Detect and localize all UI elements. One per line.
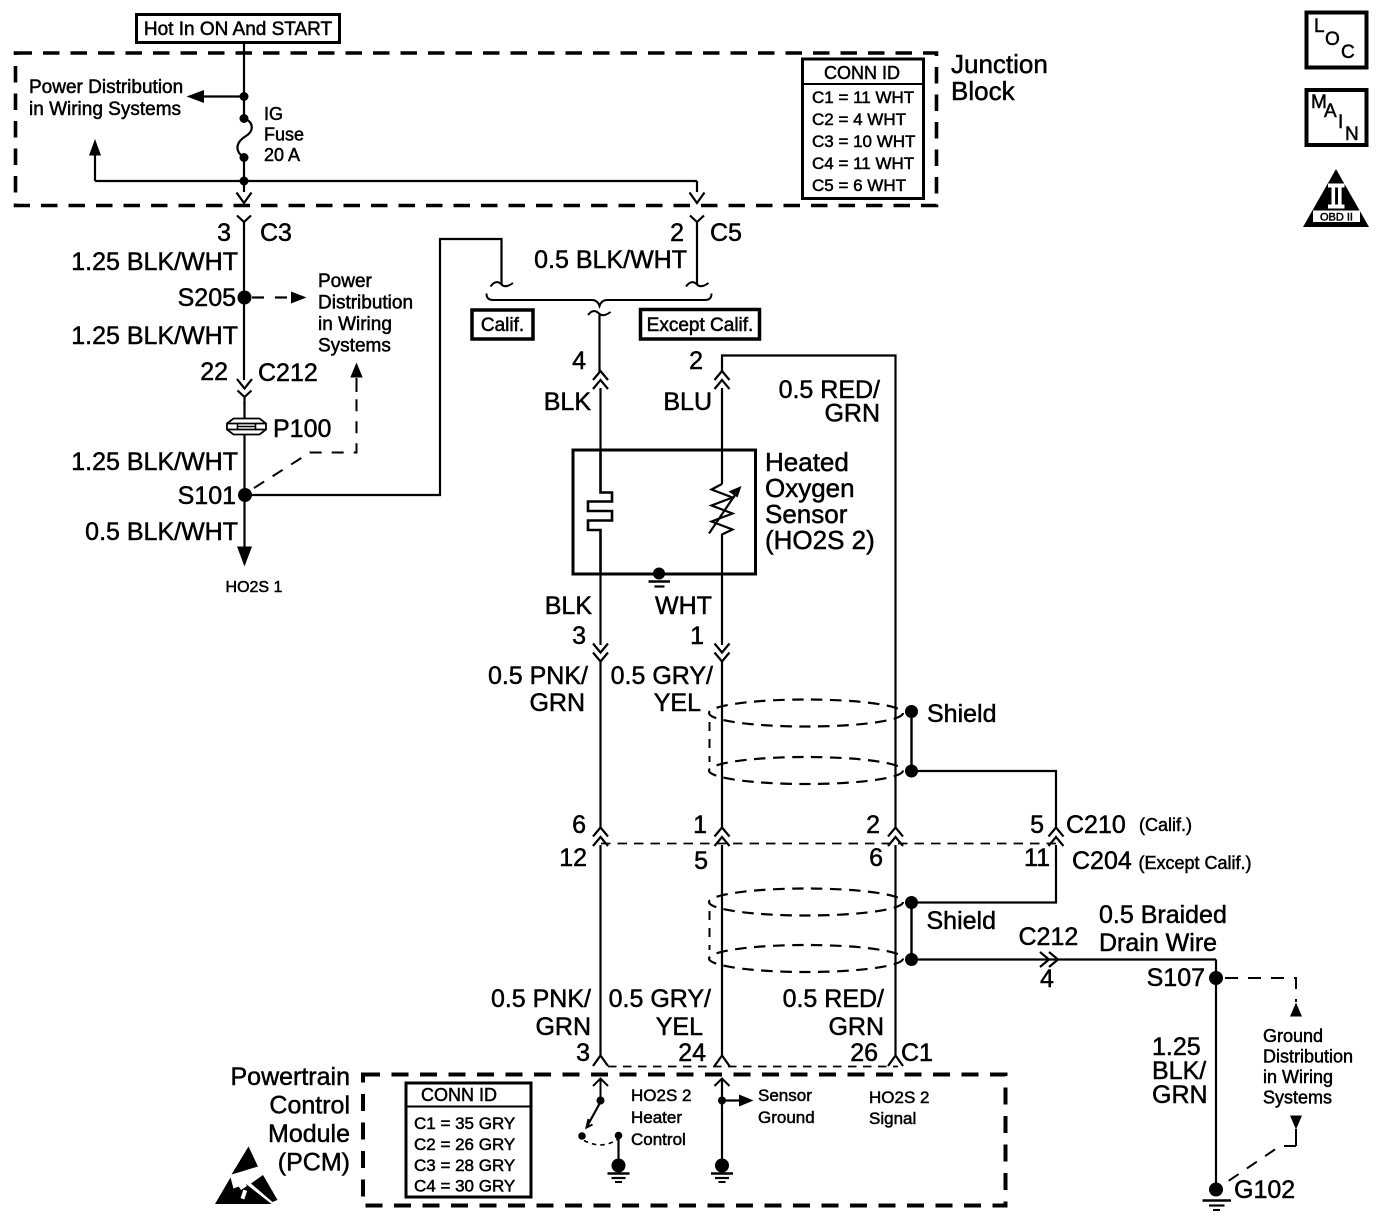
wire S101 to HO2S1 arrow xyxy=(243,495,245,548)
wire P100 to S101 xyxy=(243,435,245,496)
label Heated Oxygen Sensor (HO2S 2) xyxy=(765,447,875,555)
label HO2S 2 Heater Control xyxy=(631,1086,691,1149)
wire to C5 xyxy=(696,181,698,192)
svg-text:S205: S205 xyxy=(178,284,236,312)
connector arrow C5 (male) xyxy=(690,193,705,204)
wire from Hot In box down to fuse xyxy=(243,43,245,119)
wire chevron to sensor (WHT inside) xyxy=(721,388,723,484)
arrow to Sensor Ground label xyxy=(722,1095,754,1107)
wire break squiggle (left of brace) xyxy=(491,282,514,286)
wire sensor to chevrons (WHT) xyxy=(721,574,723,645)
inline chevrons BLU wire xyxy=(715,371,730,389)
svg-text:GRN: GRN xyxy=(1152,1081,1208,1109)
svg-text:OBD II: OBD II xyxy=(1320,212,1353,224)
label box Calif. xyxy=(472,310,533,339)
ground (heater control) xyxy=(608,1159,630,1183)
svg-text:Systems: Systems xyxy=(1263,1088,1332,1108)
svg-text:C210: C210 xyxy=(1066,811,1126,839)
svg-text:Control: Control xyxy=(631,1130,686,1149)
svg-text:0.5 BLK/WHT: 0.5 BLK/WHT xyxy=(85,518,238,546)
label 0.5 Braided Drain Wire xyxy=(1099,901,1227,957)
svg-text:Except Calif.: Except Calif. xyxy=(647,315,754,336)
bus wire inside junction block xyxy=(95,180,697,182)
svg-text:S107: S107 xyxy=(1147,964,1205,992)
label IG Fuse 20 A xyxy=(264,104,304,165)
svg-text:C212: C212 xyxy=(1019,923,1079,951)
svg-text:0.5 GRY/: 0.5 GRY/ xyxy=(609,985,711,1013)
svg-text:Block: Block xyxy=(951,76,1016,106)
label C212 / 4 xyxy=(1019,923,1079,993)
inline chevrons BLK wire xyxy=(593,371,608,389)
svg-text:O: O xyxy=(1325,29,1340,50)
pin 3 internal arrow xyxy=(593,1079,608,1105)
svg-text:4: 4 xyxy=(1040,965,1054,993)
wire RED/GRN between connector and lower shield xyxy=(894,845,896,1049)
connector line C210/C204 (dashed) xyxy=(601,843,1056,845)
label Junction Block xyxy=(951,49,1048,106)
svg-text:2: 2 xyxy=(670,219,684,247)
svg-text:in Wiring Systems: in Wiring Systems xyxy=(29,99,181,120)
svg-text:P100: P100 xyxy=(273,415,331,443)
LOC symbol xyxy=(1307,13,1367,68)
wire break squiggle (below brace) xyxy=(588,311,611,315)
wire GRY/YEL to PCM xyxy=(721,845,723,1049)
svg-text:C2 = 4 WHT: C2 = 4 WHT xyxy=(812,110,906,129)
junction block dashed box xyxy=(16,53,937,206)
svg-text:(PCM): (PCM) xyxy=(278,1149,350,1177)
inline chevrons PNK/GRN wire xyxy=(593,644,608,662)
svg-text:C1: C1 xyxy=(901,1039,933,1067)
pin labels at C210/C204 xyxy=(559,811,1050,875)
connector arrow C3 (male) xyxy=(237,193,252,204)
MAIN symbol xyxy=(1307,90,1367,145)
svg-text:1: 1 xyxy=(690,622,704,650)
svg-text:Powertrain: Powertrain xyxy=(231,1063,351,1091)
svg-text:3: 3 xyxy=(572,622,586,650)
pin 22 label C212 xyxy=(200,358,318,387)
CONN ID table (PCM) xyxy=(406,1083,531,1197)
svg-text:N: N xyxy=(1345,124,1359,145)
arrow to Power Distribution (left) xyxy=(187,90,245,103)
svg-text:GRN: GRN xyxy=(824,400,880,428)
inline chevrons at C210 pin 5/11 xyxy=(1049,828,1064,847)
svg-text:in Wiring: in Wiring xyxy=(1263,1067,1333,1087)
svg-text:BLU: BLU xyxy=(663,388,712,416)
shield drain wire to C210 pin 5 xyxy=(912,771,1057,828)
svg-text:3: 3 xyxy=(576,1039,590,1067)
svg-text:6: 6 xyxy=(572,811,586,839)
svg-text:HO2S 2: HO2S 2 xyxy=(869,1088,929,1107)
svg-text:I: I xyxy=(1338,112,1343,133)
svg-text:1: 1 xyxy=(693,811,707,839)
svg-text:C4 = 30 GRY: C4 = 30 GRY xyxy=(414,1177,515,1196)
svg-text:(HO2S 2): (HO2S 2) xyxy=(765,525,875,555)
svg-text:C1 = 35 GRY: C1 = 35 GRY xyxy=(414,1114,515,1133)
label Powertrain Control Module (PCM) xyxy=(231,1063,351,1177)
svg-text:0.5 PNK/: 0.5 PNK/ xyxy=(491,985,591,1013)
svg-text:GRN: GRN xyxy=(828,1013,884,1041)
OBD II symbol xyxy=(1303,169,1369,227)
dashed arrow Ground Distribution to G102 xyxy=(1224,1116,1302,1185)
svg-text:Sensor: Sensor xyxy=(758,1086,812,1105)
wire break squiggle (right of brace) xyxy=(686,282,709,286)
label box Hot In ON And START xyxy=(137,15,340,43)
splice S101 xyxy=(178,482,252,510)
svg-text:G102: G102 xyxy=(1234,1176,1295,1204)
svg-text:C5: C5 xyxy=(710,219,742,247)
wire C212 to P100 xyxy=(243,402,245,419)
svg-text:3: 3 xyxy=(217,219,231,247)
svg-text:Drain Wire: Drain Wire xyxy=(1099,929,1217,957)
svg-text:BLK: BLK xyxy=(544,388,592,416)
wire corner RED/GRN to BLU chevron xyxy=(722,356,896,829)
svg-text:WHT: WHT xyxy=(655,592,712,620)
junction dot at fuse tap xyxy=(240,92,249,101)
wire label 1.25 BLK/ GRN xyxy=(1152,1033,1208,1109)
wire GRY/YEL down to C210 xyxy=(721,660,723,828)
connector C5 female half xyxy=(690,216,704,231)
svg-text:C3 = 10 WHT: C3 = 10 WHT xyxy=(812,132,915,151)
svg-text:C2 = 26 GRY: C2 = 26 GRY xyxy=(414,1135,515,1154)
svg-text:in Wiring: in Wiring xyxy=(318,314,392,335)
svg-text:C4 = 11 WHT: C4 = 11 WHT xyxy=(812,154,914,173)
pin 24 internal arrow and ground xyxy=(715,1079,730,1159)
svg-text:0.5 BLK/WHT: 0.5 BLK/WHT xyxy=(534,246,687,274)
svg-text:20 A: 20 A xyxy=(264,145,300,165)
svg-text:GRN: GRN xyxy=(535,1013,591,1041)
wire S101 branch right and up xyxy=(245,239,502,495)
svg-text:Calif.: Calif. xyxy=(481,315,524,336)
drain wire C210 to lower shield xyxy=(912,845,1057,903)
sensing element (variable resistor) xyxy=(709,484,742,574)
ground (sensor ground) xyxy=(711,1159,733,1183)
svg-text:1.25 BLK/WHT: 1.25 BLK/WHT xyxy=(71,448,238,476)
wire label 0.5 GRY/ YEL (bottom) xyxy=(609,985,711,1041)
svg-text:HO2S 1: HO2S 1 xyxy=(226,579,283,596)
arrow to HO2S 1 xyxy=(237,547,252,567)
wire chevron to sensor (BLK) xyxy=(599,388,601,451)
svg-text:5: 5 xyxy=(1030,811,1044,839)
svg-text:26: 26 xyxy=(850,1039,878,1067)
label box Except Calif. xyxy=(641,310,760,340)
wire label 0.5 PNK/ GRN (bottom) xyxy=(491,985,591,1041)
svg-text:C3: C3 xyxy=(260,219,292,247)
svg-text:6: 6 xyxy=(869,844,883,872)
svg-text:GRN: GRN xyxy=(529,689,585,717)
svg-text:C: C xyxy=(1341,42,1355,63)
svg-text:2: 2 xyxy=(866,811,880,839)
svg-text:(Except Calif.): (Except Calif.) xyxy=(1139,853,1252,873)
label HO2S 2 Signal xyxy=(869,1088,929,1128)
svg-text:C3 = 28 GRY: C3 = 28 GRY xyxy=(414,1156,515,1175)
inline chevrons GRY/YEL wire xyxy=(715,644,730,662)
splice S205 xyxy=(178,284,252,312)
label Power Distribution in Wiring Systems (top left) xyxy=(29,77,183,120)
svg-text:Junction: Junction xyxy=(951,49,1048,79)
svg-text:C204: C204 xyxy=(1072,847,1132,875)
fuse IG 20A xyxy=(237,114,251,162)
label Ground Distribution in Wiring Systems xyxy=(1263,1026,1353,1108)
ESD symbol xyxy=(215,1147,278,1205)
inline chevrons at C210 pin 6/12 xyxy=(593,828,608,847)
heater element (meander) xyxy=(588,451,612,574)
heater control switch xyxy=(578,1102,622,1159)
connector C1 female halves at PCM xyxy=(593,1049,903,1066)
wire S205 to C212 xyxy=(243,297,245,380)
svg-text:Heater: Heater xyxy=(631,1108,682,1127)
svg-text:Power Distribution: Power Distribution xyxy=(29,77,183,98)
wire fuse to bus xyxy=(243,158,245,193)
svg-text:L: L xyxy=(1314,16,1325,37)
pin 3 label C3 xyxy=(217,219,292,247)
svg-text:BLK: BLK xyxy=(545,592,593,620)
svg-text:C212: C212 xyxy=(258,359,318,387)
svg-text:A: A xyxy=(1324,101,1337,122)
upper shield dots and tie xyxy=(905,705,918,778)
wire PNK/GRN to PCM xyxy=(599,845,601,1049)
junction dot on bus xyxy=(240,177,249,186)
connector line C1 (dashed) xyxy=(608,1066,898,1068)
label Sensor Ground xyxy=(758,1086,815,1127)
connector labels C210 (Calif.) / C204 (Except Calif.) xyxy=(1066,811,1252,875)
svg-text:Systems: Systems xyxy=(318,336,391,357)
svg-text:0.5 PNK/: 0.5 PNK/ xyxy=(488,662,588,690)
braided drain wire to S107 xyxy=(912,958,1217,960)
svg-text:0.5 Braided: 0.5 Braided xyxy=(1099,901,1227,929)
svg-text:24: 24 xyxy=(678,1039,706,1067)
wire C5 down xyxy=(696,228,698,284)
upper shield cylinder xyxy=(709,700,903,785)
svg-text:1.25 BLK/WHT: 1.25 BLK/WHT xyxy=(71,248,238,276)
pin 2 label C5 xyxy=(670,219,742,247)
wire C3 to S205 xyxy=(243,228,245,297)
svg-text:IG: IG xyxy=(264,104,283,124)
svg-text:Hot In ON And START: Hot In ON And START xyxy=(144,19,333,40)
svg-text:Control: Control xyxy=(269,1092,350,1120)
svg-text:CONN ID: CONN ID xyxy=(824,63,900,83)
grommet P100 xyxy=(227,415,331,443)
svg-text:YEL: YEL xyxy=(656,1013,703,1041)
svg-text:1.25 BLK/WHT: 1.25 BLK/WHT xyxy=(71,322,238,350)
svg-text:C1 = 11 WHT: C1 = 11 WHT xyxy=(812,88,914,107)
svg-text:Distribution: Distribution xyxy=(1263,1047,1353,1067)
wire S107 down to G102 xyxy=(1215,960,1217,1185)
svg-text:Fuse: Fuse xyxy=(264,125,304,145)
lower shield dots and tie xyxy=(905,896,918,966)
svg-text:Ground: Ground xyxy=(758,1108,815,1127)
pin labels 3 24 26 C1 xyxy=(576,1039,933,1067)
wire label 0.5 GRY/ YEL xyxy=(611,662,713,717)
inline chevrons at C210 pin 1/5 xyxy=(715,828,730,847)
svg-text:Ground: Ground xyxy=(1263,1026,1323,1046)
Heated Oxygen Sensor box xyxy=(573,450,756,574)
svg-text:Module: Module xyxy=(268,1120,350,1148)
svg-text:11: 11 xyxy=(1024,844,1050,872)
wire brace to BLK chevron xyxy=(598,315,600,372)
inline chevrons at C210 pin 2/6 xyxy=(888,828,903,847)
wire sensor to chevrons (BLK) xyxy=(599,574,601,645)
wire label 0.5 RED/ GRN (bottom) xyxy=(783,985,884,1041)
wire PNK/GRN down to C210 xyxy=(599,660,601,828)
svg-text:2: 2 xyxy=(689,347,703,375)
dashed arrow S107 to Ground Distribution xyxy=(1225,978,1302,1017)
label Power Distribution in Wiring Systems (mid) xyxy=(318,271,413,357)
svg-text:5: 5 xyxy=(694,847,708,875)
dashed arrow S205 to Power Distribution xyxy=(252,292,307,304)
svg-text:HO2S 2: HO2S 2 xyxy=(631,1086,691,1105)
svg-text:Shield: Shield xyxy=(927,907,997,935)
svg-text:Signal: Signal xyxy=(869,1109,916,1128)
svg-text:C5 = 6 WHT: C5 = 6 WHT xyxy=(812,176,906,195)
svg-text:Distribution: Distribution xyxy=(318,293,413,314)
inline chevrons C212 pin 4 (drain) xyxy=(1040,952,1058,967)
svg-text:Shield: Shield xyxy=(927,700,997,728)
svg-text:CONN ID: CONN ID xyxy=(421,1085,497,1105)
svg-text:12: 12 xyxy=(559,844,587,872)
CONN ID table (junction block) xyxy=(803,59,924,199)
wire label 0.5 PNK/ GRN xyxy=(488,662,588,717)
svg-text:0.5 RED/: 0.5 RED/ xyxy=(783,985,884,1013)
svg-text:0.5 GRY/: 0.5 GRY/ xyxy=(611,662,713,690)
splice S107 xyxy=(1147,964,1223,992)
dashed arrow S101 to Power Distribution xyxy=(254,363,363,489)
svg-text:4: 4 xyxy=(572,347,586,375)
sensor internal ground xyxy=(649,568,671,587)
connector C212 xyxy=(237,379,252,404)
svg-text:22: 22 xyxy=(200,358,228,386)
PCM dashed box xyxy=(363,1075,1006,1206)
up arrow to Power Distribution xyxy=(89,139,101,181)
brace merging Calif / Except Calif xyxy=(487,294,712,307)
connector C3 female half xyxy=(237,216,251,231)
lower shield cylinder xyxy=(709,889,903,973)
svg-text:Power: Power xyxy=(318,271,373,292)
ground G102 xyxy=(1203,1176,1296,1210)
svg-text:S101: S101 xyxy=(178,482,236,510)
svg-text:(Calif.): (Calif.) xyxy=(1139,815,1192,835)
wire label 0.5 RED/ GRN xyxy=(779,376,880,428)
svg-text:YEL: YEL xyxy=(654,689,701,717)
